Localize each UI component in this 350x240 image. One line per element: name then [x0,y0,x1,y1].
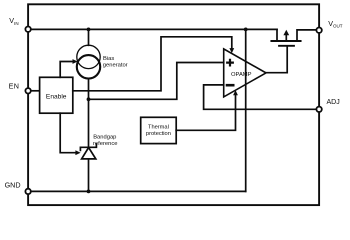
transistor Q1 drain lead [297,30,319,41]
svg-text:protection: protection [146,131,171,137]
op-amp U1 triangle [224,49,266,97]
svg-text:Bandgap: Bandgap [93,134,116,140]
arrowhead into opamp bottom [233,90,238,95]
svg-text:ADJ: ADJ [327,99,340,106]
svg-text:OPAMP: OPAMP [231,72,252,78]
diode D1 bandgap zener cathode bar [80,144,96,150]
arrowhead into bias generator [73,59,78,64]
pin VIN terminal [25,27,30,32]
block Enable [40,77,73,113]
svg-text:GND: GND [5,180,21,189]
wire reference to opamp non-inverting input [89,63,224,100]
wire bias generator top lead [88,29,90,45]
arrowhead into bandgap reference [75,150,80,155]
wire thermal protection to opamp [176,95,235,130]
current source I1 upper circle [77,45,100,68]
diode D1 bandgap zener triangle [82,148,96,159]
svg-text:VIN: VIN [9,16,18,26]
op-amp minus marker [227,84,233,87]
junction bandgap reference tap [87,97,91,101]
wire Enable to bias generator [60,62,73,78]
svg-text:reference: reference [93,141,118,147]
wire VIN-to-GND opamp supply line [245,29,247,191]
transistor Q1 body arrow shaft [285,35,287,41]
wire opamp output to MOSFET gate [266,46,287,73]
wire bias generator bottom lead to bandgap [88,79,90,148]
pin VOUT terminal [316,28,321,33]
wire GND rail [28,190,246,192]
svg-text:VOUT: VOUT [328,19,343,29]
wire Enable to bandgap reference [60,113,76,153]
transistor Q1 gate bar [279,45,294,47]
op-amp plus marker [227,60,233,66]
svg-text:Bias: Bias [103,56,114,62]
wire zener anode to ground rail [88,159,90,192]
junction zener-ground [87,190,91,194]
svg-text:generator: generator [103,62,128,68]
pin EN terminal [25,88,30,93]
wire opamp inverting input from ADJ [204,85,320,109]
svg-text:Thermal: Thermal [148,125,169,131]
pin GND terminal [25,189,30,194]
wire EN pin to Enable block [28,90,39,92]
package outline border [28,4,319,205]
svg-text:Enable: Enable [46,93,67,100]
wire VIN rail [28,28,277,30]
transistor Q1 source lead [276,29,278,41]
block Thermal protection [141,117,177,143]
junction VIN-opamp supply [244,28,248,32]
arrowhead into opamp top [229,48,234,53]
wire Enable output to opamp enable [73,37,232,91]
current source I1 lower circle [77,55,100,78]
transistor Q1 channel bar [272,40,301,42]
pin ADJ terminal [316,107,321,112]
junction VIN-bias [87,28,91,32]
svg-text:EN: EN [9,82,20,91]
transistor Q1 body arrowhead [283,30,289,36]
